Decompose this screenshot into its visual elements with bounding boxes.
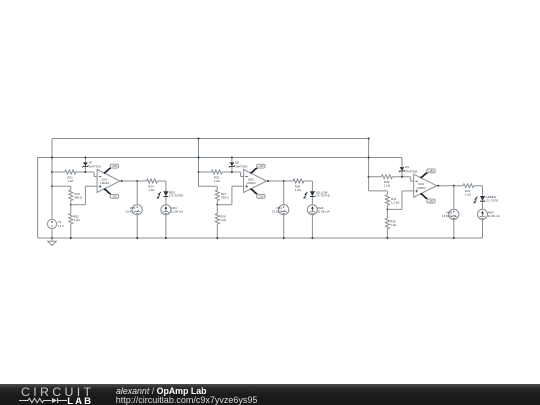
svg-text:750 Ω: 750 Ω: [221, 196, 230, 200]
svg-text:13.81 V: 13.81 V: [125, 209, 135, 213]
svg-text:LTL-307YE: LTL-307YE: [315, 194, 329, 198]
svg-text:1N4733A: 1N4733A: [235, 165, 247, 169]
svg-text:1 kΩ: 1 kΩ: [148, 188, 155, 192]
svg-text:1 kΩ: 1 kΩ: [295, 188, 302, 192]
svg-text:1.2 kΩ: 1.2 kΩ: [391, 200, 400, 204]
svg-text:13.81 V: 13.81 V: [442, 214, 452, 218]
svg-text:1 kΩ: 1 kΩ: [465, 193, 472, 197]
svg-text:+15V: +15V: [428, 170, 434, 173]
svg-text:11.98 mA: 11.98 mA: [317, 209, 329, 213]
svg-text:1 kΩ: 1 kΩ: [220, 218, 227, 222]
svg-text:-15V: -15V: [112, 195, 118, 198]
svg-text:1N4733A: 1N4733A: [89, 165, 101, 169]
svg-text:LM324: LM324: [100, 181, 109, 185]
svg-text:LM324: LM324: [247, 181, 256, 185]
svg-text:-15V: -15V: [428, 200, 434, 203]
svg-text:LTL-307EE: LTL-307EE: [169, 194, 183, 198]
svg-text:560 Ω: 560 Ω: [74, 196, 83, 200]
svg-text:1 kΩ: 1 kΩ: [390, 223, 397, 227]
svg-text:1 kΩ: 1 kΩ: [384, 184, 391, 188]
svg-text:11.98 mA: 11.98 mA: [488, 214, 500, 218]
svg-text:1N4733A: 1N4733A: [405, 169, 417, 173]
svg-text:1 kΩ: 1 kΩ: [74, 218, 81, 222]
svg-text:LTL-307G: LTL-307G: [486, 198, 500, 202]
svg-text:13.81 V: 13.81 V: [272, 209, 282, 213]
svg-text:-15V: -15V: [258, 195, 264, 198]
svg-text:12 V: 12 V: [58, 224, 64, 228]
svg-text:+15V: +15V: [111, 165, 117, 168]
svg-text:1 kΩ: 1 kΩ: [214, 179, 221, 183]
svg-text:1 kΩ: 1 kΩ: [67, 179, 74, 183]
svg-text:LM324: LM324: [417, 186, 426, 190]
svg-text:11.98 mA: 11.98 mA: [171, 209, 183, 213]
svg-text:+15V: +15V: [258, 165, 264, 168]
